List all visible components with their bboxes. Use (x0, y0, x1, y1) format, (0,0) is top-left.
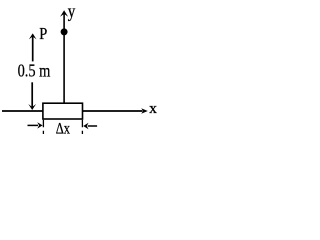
left extension line (42, 120, 44, 134)
dimension down arrowhead (28, 104, 36, 110)
dimension lower shaft (31, 82, 33, 108)
block (43, 103, 83, 119)
delta-x right arrowhead (83, 123, 88, 129)
svg-text:x: x (149, 101, 157, 117)
svg-text:0.5 m: 0.5 m (18, 61, 51, 81)
dimension up arrowhead (29, 33, 37, 39)
point dot on y-axis (61, 28, 68, 35)
x-axis (2, 110, 143, 112)
dimension upper shaft (P) (32, 35, 34, 62)
svg-text:Δx: Δx (56, 121, 70, 138)
y-axis (63, 12, 65, 103)
right extension line (81, 120, 83, 134)
svg-text:y: y (68, 1, 76, 21)
x-axis arrowhead (141, 108, 148, 114)
y-axis arrowhead (60, 10, 68, 17)
delta-x left arrowhead (37, 122, 42, 128)
svg-text:P: P (39, 24, 47, 43)
delta-x left arrow shaft (28, 124, 39, 126)
delta-x right arrow shaft (88, 125, 97, 127)
